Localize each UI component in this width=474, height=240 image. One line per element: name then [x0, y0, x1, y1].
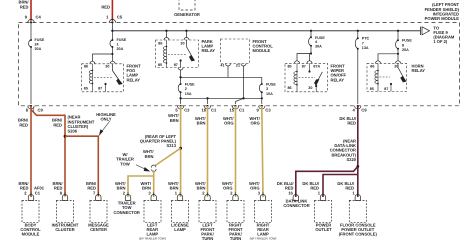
FCM pin 41 cup	[226, 64, 231, 67]
wire inline connector down to left rear lamp	[153, 171, 155, 198]
coil park relay	[163, 40, 166, 68]
wire RED to C4	[30, 0, 32, 21]
label WHT/ORG	[223, 116, 234, 126]
label HIGHLINE ONLY	[96, 112, 116, 122]
svg-text:ORG: ORG	[250, 121, 259, 126]
svg-text:87: 87	[384, 87, 388, 91]
node splice S313	[179, 147, 182, 150]
svg-text:FUSE: FUSE	[35, 38, 45, 42]
svg-text:OUTLET: OUTLET	[315, 227, 332, 232]
wiper relay pin cup 87A	[307, 61, 312, 64]
svg-text:FUSE: FUSE	[315, 36, 325, 40]
svg-text:S320: S320	[346, 157, 356, 162]
svg-text:2: 2	[185, 87, 187, 91]
label WHT/BRN (left front bottom)	[195, 181, 206, 191]
svg-text:(W/ TRAILER TOW): (W/ TRAILER TOW)	[139, 237, 166, 240]
box license lamp	[172, 200, 189, 222]
box power outlet	[315, 200, 332, 222]
svg-text:(W/ TRAILER TOW): (W/ TRAILER TOW)	[250, 237, 277, 240]
svg-text:3: 3	[266, 87, 268, 91]
node fog relay feed	[111, 53, 113, 55]
front control module box	[221, 39, 250, 64]
connector 4 C9	[353, 105, 368, 113]
svg-text:1: 1	[117, 42, 119, 46]
label WHT/ORG	[249, 116, 260, 126]
node bus to fuse 8	[397, 30, 399, 32]
label DK BLU/RED (power outlet)	[302, 181, 319, 191]
label BRN/RED (top, clipped)	[18, 0, 29, 10]
svg-text:FUSE: FUSE	[117, 38, 127, 42]
splice S320 label	[330, 139, 357, 162]
relay pin 30 cup	[110, 61, 115, 63]
svg-text:TURN: TURN	[202, 236, 213, 240]
connector 9 C3	[257, 105, 272, 113]
svg-text:87: 87	[174, 63, 178, 67]
wire jog to 15C1 connector	[236, 98, 244, 104]
wire C5 to bus	[111, 23, 113, 40]
svg-text:30A: 30A	[315, 45, 322, 49]
park lamp relay box	[156, 40, 199, 68]
node junction y77	[179, 76, 181, 78]
svg-text:C9: C9	[38, 108, 44, 113]
generator box	[179, 0, 195, 10]
svg-text:BRN: BRN	[170, 185, 179, 190]
svg-text:TOW: TOW	[120, 161, 130, 166]
connector 1 C5	[106, 14, 123, 23]
label WHT/ORG (right front bottom)	[222, 181, 233, 191]
wire WHT/ORG from 9C3	[262, 106, 263, 197]
svg-text:41: 41	[220, 64, 224, 68]
wire BRN/RED branch to S206	[31, 110, 65, 197]
svg-text:86: 86	[370, 64, 374, 68]
svg-text:C5: C5	[117, 14, 123, 19]
label WHT/BRN (left rear bottom)	[141, 181, 152, 191]
label WHT/BRN	[168, 113, 179, 123]
box left rear lamp	[144, 200, 161, 222]
wire to 16C1 connector	[207, 98, 209, 104]
pointer trailer tow	[136, 165, 149, 171]
pin and cup right front park lamp	[230, 191, 238, 201]
dashed link horn relay	[380, 76, 391, 78]
node splice S206	[64, 135, 67, 138]
svg-text:13A: 13A	[362, 46, 369, 50]
svg-text:RED: RED	[101, 5, 110, 10]
wire C4 to fuse 24	[30, 23, 32, 40]
wire WHT/BRN from 16C1	[207, 106, 209, 197]
svg-text:20A: 20A	[117, 47, 124, 51]
wire fuse 2 to bottom connector	[180, 92, 182, 104]
switch fog relay	[112, 64, 121, 85]
horn relay label	[412, 64, 426, 74]
node bus to park relay 86	[165, 30, 167, 32]
svg-text:85: 85	[370, 87, 374, 91]
pin and cup floor console power outlet	[353, 191, 361, 201]
svg-text:C1: C1	[211, 108, 217, 113]
svg-text:30: 30	[180, 42, 184, 46]
horn relay pin 30 cup	[396, 61, 401, 64]
svg-text:CENTER: CENTER	[90, 227, 107, 232]
wire DK BLU/RED from 4C9	[357, 106, 359, 197]
svg-text:(FRONT CONSOLE): (FRONT CONSOLE)	[339, 232, 378, 237]
svg-text:C1: C1	[239, 108, 245, 113]
label WHT/ORG (right rear bottom)	[249, 181, 260, 191]
splice S206 label	[68, 115, 95, 134]
svg-text:C3: C3	[265, 108, 271, 113]
pin and cup message center	[93, 191, 101, 201]
wire highline branch to message center	[65, 136, 98, 196]
svg-text:86: 86	[84, 64, 88, 68]
wire branch to trailer tow connector	[128, 176, 154, 197]
switch wiper relay	[315, 72, 323, 85]
svg-text:C3: C3	[184, 108, 190, 113]
wire BRN/RED to BCM	[30, 106, 32, 197]
connector 8 C9 (bottom edge)	[26, 105, 44, 113]
svg-text:RED: RED	[87, 185, 96, 190]
svg-text:S206: S206	[68, 129, 78, 134]
label DK BLU/RED (DLC)	[277, 181, 294, 191]
splice S313 label	[140, 134, 177, 148]
node y98 junctions	[206, 97, 208, 99]
connector 16 C1	[201, 105, 217, 113]
svg-text:20A: 20A	[402, 48, 409, 52]
svg-text:POWER MODULE: POWER MODULE	[425, 16, 460, 21]
integrated power module box (dashed)	[19, 23, 460, 106]
svg-text:85: 85	[84, 87, 88, 91]
wire to fog relay pins	[92, 54, 112, 61]
box right rear lamp	[255, 200, 272, 222]
IPM label (top right)	[425, 2, 460, 21]
wire WHT/ORG from 15C1	[235, 106, 237, 197]
fuse 1 20A	[110, 38, 127, 51]
pin and cup right rear lamp	[258, 191, 266, 201]
pin and cup trailer tow connector	[123, 191, 131, 201]
svg-text:85: 85	[158, 63, 162, 67]
svg-text:C9: C9	[361, 108, 367, 113]
box instrument cluster	[57, 200, 74, 222]
label BRN/RED	[52, 118, 63, 128]
svg-text:RED: RED	[20, 185, 29, 190]
node splice S320	[356, 165, 359, 168]
wire branch S313 to inline connector	[155, 148, 180, 165]
svg-text:RED: RED	[19, 122, 28, 127]
label BRN/RED	[18, 118, 29, 128]
wire branch S320 to data link connector	[296, 167, 358, 198]
svg-text:MODULE: MODULE	[253, 48, 271, 53]
node 87 terminal	[104, 83, 106, 85]
svg-text:ORG: ORG	[224, 121, 233, 126]
switch horn relay	[398, 63, 406, 82]
PTC 7 13A	[357, 31, 359, 38]
svg-text:AF01: AF01	[34, 185, 45, 190]
node 30 terminal	[315, 85, 317, 87]
dashed link fog relay	[94, 76, 112, 78]
label WHT/BRN	[195, 116, 206, 126]
svg-text:BRN: BRN	[117, 185, 126, 190]
fog relay label	[127, 64, 142, 83]
svg-text:BRN: BRN	[142, 185, 151, 190]
svg-text:PTC: PTC	[362, 37, 370, 41]
svg-text:RED: RED	[54, 185, 63, 190]
label DK BLU/RED	[339, 116, 356, 126]
svg-text:RELAY: RELAY	[412, 68, 426, 73]
svg-text:S313: S313	[166, 143, 176, 148]
svg-text:BRN: BRN	[145, 154, 154, 159]
coil horn relay	[375, 63, 378, 91]
svg-text:GENERATOR: GENERATOR	[174, 12, 200, 17]
wire fuse 1 down	[111, 47, 113, 54]
svg-text:RED: RED	[310, 185, 319, 190]
label W/ TRAILER TOW	[116, 152, 134, 166]
pin and cup data link connector	[288, 191, 298, 201]
svg-text:20A: 20A	[35, 47, 42, 51]
label WHT/BRN (trailer tow bottom)	[115, 181, 126, 191]
box message center	[90, 200, 107, 222]
svg-text:MODULE: MODULE	[22, 232, 40, 237]
FCM label	[253, 39, 274, 53]
svg-text:C1: C1	[35, 191, 41, 196]
wire horizontal y77	[181, 76, 262, 78]
svg-text:RED: RED	[285, 185, 294, 190]
label BRN/RED (message center bottom)	[86, 181, 97, 191]
svg-text:86: 86	[158, 42, 162, 46]
svg-text:15A: 15A	[185, 92, 192, 96]
inline connector trailer tow	[151, 165, 156, 171]
svg-text:30: 30	[105, 64, 109, 68]
node 87 terminal park relay	[180, 59, 182, 61]
connector 9 C4	[25, 14, 42, 23]
wire fuse 24 to C9	[30, 47, 32, 104]
svg-text:ORG: ORG	[250, 185, 259, 190]
wire bus to park relay pins	[166, 31, 168, 38]
wire park relay 87 to node	[180, 70, 182, 83]
node bus to park relay 30	[185, 30, 187, 32]
label WHT/BRN (S313 branch)	[143, 149, 154, 159]
connector 5 C3	[175, 105, 190, 113]
svg-text:87: 87	[302, 65, 306, 69]
svg-text:LAMP: LAMP	[174, 227, 186, 232]
svg-text:C4: C4	[36, 14, 42, 19]
node bus to PTC 7	[357, 30, 359, 32]
svg-text:85: 85	[288, 65, 292, 69]
wire RED to C5	[111, 0, 113, 21]
arrow to fuse 9	[421, 27, 430, 35]
svg-text:8: 8	[402, 43, 404, 47]
svg-text:ORG: ORG	[223, 185, 232, 190]
wiper relay label	[331, 64, 347, 83]
fuse 4 30A	[310, 31, 312, 38]
svg-text:30: 30	[308, 86, 312, 90]
node bus to fuse 4	[310, 30, 312, 32]
box left front park lamp	[199, 200, 216, 222]
svg-text:CONNECTOR: CONNECTOR	[283, 203, 309, 208]
wire horizontal y98	[181, 97, 262, 99]
box floor console power outlet	[349, 200, 366, 222]
svg-text:RELAY: RELAY	[202, 48, 216, 53]
dashed link wiper relay	[299, 76, 316, 78]
wire fuse 3 down	[261, 92, 263, 104]
node 87 terminal wiper	[309, 63, 311, 71]
horn relay pin 86 cup	[376, 61, 381, 64]
svg-text:BRN: BRN	[197, 185, 206, 190]
dashed link park relay	[168, 54, 186, 56]
park relay pin 30 cup	[184, 38, 189, 41]
switch park relay	[187, 40, 195, 61]
node 87 terminal horn	[390, 83, 392, 85]
svg-text:15: 15	[229, 108, 234, 113]
svg-text:BRN: BRN	[170, 118, 179, 123]
coil fog relay	[89, 64, 92, 92]
park relay pin 87 cup	[178, 68, 183, 71]
fuse 3 15A	[261, 77, 263, 83]
front wiper on/off relay box	[285, 63, 328, 92]
coil wiper relay	[294, 63, 297, 92]
svg-text:RELAY: RELAY	[127, 77, 141, 82]
svg-text:TURN: TURN	[230, 236, 241, 240]
svg-text:1 OF 2): 1 OF 2)	[433, 39, 448, 44]
pin and cup left rear lamp	[148, 191, 156, 201]
pin and cup license lamp	[175, 191, 183, 201]
horn relay box	[367, 63, 407, 91]
wire branch S320 to power outlet	[323, 175, 358, 198]
svg-text:86: 86	[288, 86, 292, 90]
svg-text:RED: RED	[345, 185, 354, 190]
pointer highline	[100, 121, 110, 134]
front fog lamp relay box	[82, 64, 124, 92]
wire WHT/BRN from 5C3	[180, 106, 182, 197]
FCM pin 21 cup	[241, 64, 246, 67]
svg-text:RED: RED	[347, 121, 356, 126]
svg-text:7: 7	[362, 41, 364, 45]
svg-text:FUSE: FUSE	[266, 82, 276, 86]
fuse 8 20A	[397, 31, 399, 40]
svg-text:RED: RED	[53, 122, 62, 127]
svg-text:BRN: BRN	[197, 121, 206, 126]
wire fuse 4 to wiper relay	[297, 46, 311, 61]
node bus junction C5	[111, 30, 113, 32]
fuse 24 20A	[29, 38, 45, 51]
label TO FUSE 9	[433, 25, 455, 44]
wire PTC 7 down to C9	[357, 49, 359, 104]
fuse 2 15A	[178, 82, 195, 96]
relay pin 86 cup	[90, 61, 95, 63]
wire fuse 8 to horn relay	[378, 49, 398, 61]
svg-text:87A: 87A	[313, 65, 320, 69]
svg-text:87: 87	[98, 87, 102, 91]
box right front park lamp	[227, 200, 244, 222]
svg-text:RED: RED	[20, 5, 29, 10]
pin and cup body control module	[24, 191, 41, 201]
svg-text:CLUSTER: CLUSTER	[55, 227, 74, 232]
label WHT/BRN (license bottom)	[168, 181, 179, 191]
label BRN/RED (BCM bottom)	[18, 181, 29, 191]
svg-text:16: 16	[288, 191, 293, 196]
pin and cup left front park lamp	[202, 191, 210, 201]
pin and cup power outlet	[318, 191, 326, 201]
pin and cup instrument cluster	[60, 191, 68, 201]
svg-text:21: 21	[236, 64, 240, 68]
box body control module	[22, 200, 39, 222]
bus wire B+	[112, 30, 420, 32]
svg-text:RELAY: RELAY	[331, 77, 345, 82]
svg-text:CONNECTOR: CONNECTOR	[114, 210, 140, 215]
wiper relay pin cup 85	[295, 61, 300, 64]
svg-text:15A: 15A	[266, 92, 273, 96]
svg-text:ONLY: ONLY	[101, 117, 112, 122]
wire FCM 41 down	[227, 66, 229, 77]
park relay pin 86 cup	[164, 38, 169, 41]
svg-text:FUSE: FUSE	[402, 39, 412, 43]
park relay label	[202, 39, 216, 53]
svg-text:16: 16	[201, 108, 206, 113]
svg-text:FUSE: FUSE	[185, 82, 195, 86]
connector 15 C1	[229, 105, 245, 113]
wire FCM 21 down	[243, 66, 245, 98]
label DK BLU/RED (floor console)	[337, 181, 354, 191]
label BRN/RED (cluster bottom)	[52, 181, 63, 191]
